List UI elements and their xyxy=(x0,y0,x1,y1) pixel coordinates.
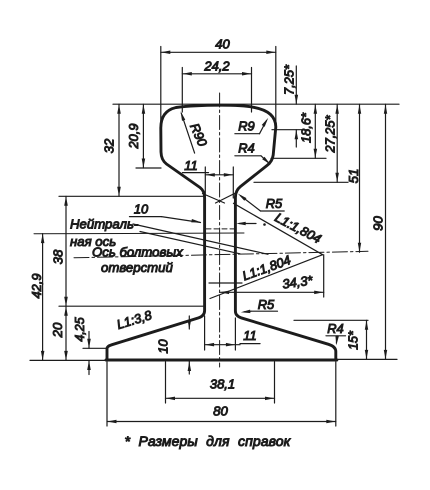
ext 11 head left xyxy=(204,167,206,198)
svg-text:10: 10 xyxy=(156,339,171,354)
ref line y168 xyxy=(136,167,161,169)
ext 80 left xyxy=(106,362,108,426)
dim 15 xyxy=(366,320,368,359)
ext 38.1 left xyxy=(165,362,167,403)
svg-text:51: 51 xyxy=(346,169,361,184)
ext 11 foot right xyxy=(234,318,236,350)
ref line y182 xyxy=(254,181,348,183)
svg-text:11: 11 xyxy=(243,328,256,343)
svg-text:24,2: 24,2 xyxy=(203,59,230,74)
svg-text:R5: R5 xyxy=(266,196,283,211)
neutral axis line xyxy=(34,232,244,235)
svg-text:32: 32 xyxy=(102,138,117,153)
foot bottom thick line xyxy=(106,359,337,362)
radius R5 upper leader xyxy=(241,196,261,211)
radius R4 head leader xyxy=(261,156,269,163)
dim 80 line xyxy=(107,421,336,423)
radius R9 leader xyxy=(260,121,267,134)
ref line y158 xyxy=(271,157,326,159)
svg-text:20: 20 xyxy=(50,322,65,338)
dim 7.25 upper arrow xyxy=(295,66,297,104)
ext line 40 left xyxy=(160,47,162,138)
svg-text:Ось болтовых: Ось болтовых xyxy=(92,244,183,259)
radius R5 lower leader xyxy=(244,310,251,313)
svg-text:15*: 15* xyxy=(347,330,361,350)
svg-text:R4: R4 xyxy=(327,321,343,336)
bolt-hole axis line xyxy=(74,251,368,257)
dim 51 xyxy=(359,104,361,252)
svg-text:20,9: 20,9 xyxy=(126,124,141,150)
head underside V line left xyxy=(203,194,225,204)
dim 27.25 xyxy=(336,104,338,182)
dim 4.25 lower arrow xyxy=(88,361,90,375)
svg-text:42,9: 42,9 xyxy=(29,274,44,299)
dim 7.25 lower arrow xyxy=(295,130,297,147)
svg-text:L1:3,8: L1:3,8 xyxy=(115,307,154,332)
head top reference line xyxy=(113,103,399,105)
dim 11 head arrows xyxy=(205,174,233,176)
dim 38.1 line xyxy=(166,397,275,399)
ref line y348 left tip xyxy=(83,347,107,349)
ext convergence point xyxy=(323,255,325,297)
dim 40 line xyxy=(161,51,276,53)
ext 11 head right xyxy=(232,167,234,198)
dim 32 xyxy=(118,104,120,196)
dim 38 xyxy=(65,196,67,306)
svg-text:34,3*: 34,3* xyxy=(281,272,314,291)
svg-text:38: 38 xyxy=(51,249,66,264)
svg-text:* Размеры для справок: * Размеры для справок xyxy=(125,433,292,449)
ref line y130 xyxy=(272,129,307,131)
leader bolt axis xyxy=(140,232,240,254)
svg-text:Нейтраль-: Нейтраль- xyxy=(70,217,139,232)
svg-text:40: 40 xyxy=(215,37,230,52)
dim 34.3 line xyxy=(220,291,324,293)
head underside V line right xyxy=(216,192,238,203)
svg-text:38,1: 38,1 xyxy=(210,377,235,392)
svg-text:R4: R4 xyxy=(238,141,254,156)
leader neutral axis xyxy=(133,224,268,254)
svg-text:18,6*: 18,6* xyxy=(299,112,314,143)
svg-text:27,25*: 27,25* xyxy=(323,114,338,153)
ext 38.1 right xyxy=(274,362,276,403)
ref line y306 xyxy=(59,305,204,307)
dim 10 foot lower arrow xyxy=(188,362,190,375)
slope line lower 1:1.804 xyxy=(210,255,323,299)
ext line 24.2 right xyxy=(251,68,253,113)
neutral axis web dash xyxy=(206,228,234,230)
ext line 24.2 left xyxy=(181,68,183,113)
ext 11 foot left xyxy=(204,316,206,350)
ref line y320 foot tip xyxy=(294,319,368,321)
ext 80 right xyxy=(335,362,337,426)
dim 10 web left arrow xyxy=(162,217,201,223)
svg-text:11: 11 xyxy=(184,158,197,173)
svg-text:90: 90 xyxy=(371,216,386,231)
dim 24.2 line xyxy=(182,73,251,75)
dim 4.25 upper arrow xyxy=(88,332,90,349)
dim 10 foot upper arrow xyxy=(188,316,190,329)
dot before slope label xyxy=(263,223,266,226)
svg-text:R90: R90 xyxy=(187,121,211,149)
svg-text:7,25*: 7,25* xyxy=(282,64,297,95)
vertical centre axis xyxy=(219,93,221,367)
web cross line y283 xyxy=(209,282,242,284)
svg-text:R9: R9 xyxy=(238,119,254,134)
foot bottom right ext xyxy=(337,358,397,360)
slope line upper 1:1.804 xyxy=(234,203,323,254)
dim 20 xyxy=(65,306,67,360)
dim 18.6 xyxy=(314,104,316,158)
dim 90 xyxy=(385,104,387,359)
svg-text:R5: R5 xyxy=(258,297,275,312)
dim 20.9 xyxy=(142,104,144,168)
svg-text:80: 80 xyxy=(213,404,228,419)
svg-text:4,25: 4,25 xyxy=(73,317,87,341)
dim 10 web right arrow xyxy=(239,223,256,225)
ref line y196 head bottom xyxy=(59,195,204,197)
svg-text:отверстий: отверстий xyxy=(101,260,173,275)
radius R90 leader xyxy=(181,113,194,153)
dim 42.9 xyxy=(42,234,44,361)
rail profile outline xyxy=(107,105,336,360)
foot bottom left ext xyxy=(30,359,106,361)
ext line 40 right xyxy=(275,47,277,131)
radius R4 foot leader xyxy=(335,336,338,343)
dim 11 foot arrows xyxy=(205,344,240,346)
svg-text:10: 10 xyxy=(134,202,149,217)
